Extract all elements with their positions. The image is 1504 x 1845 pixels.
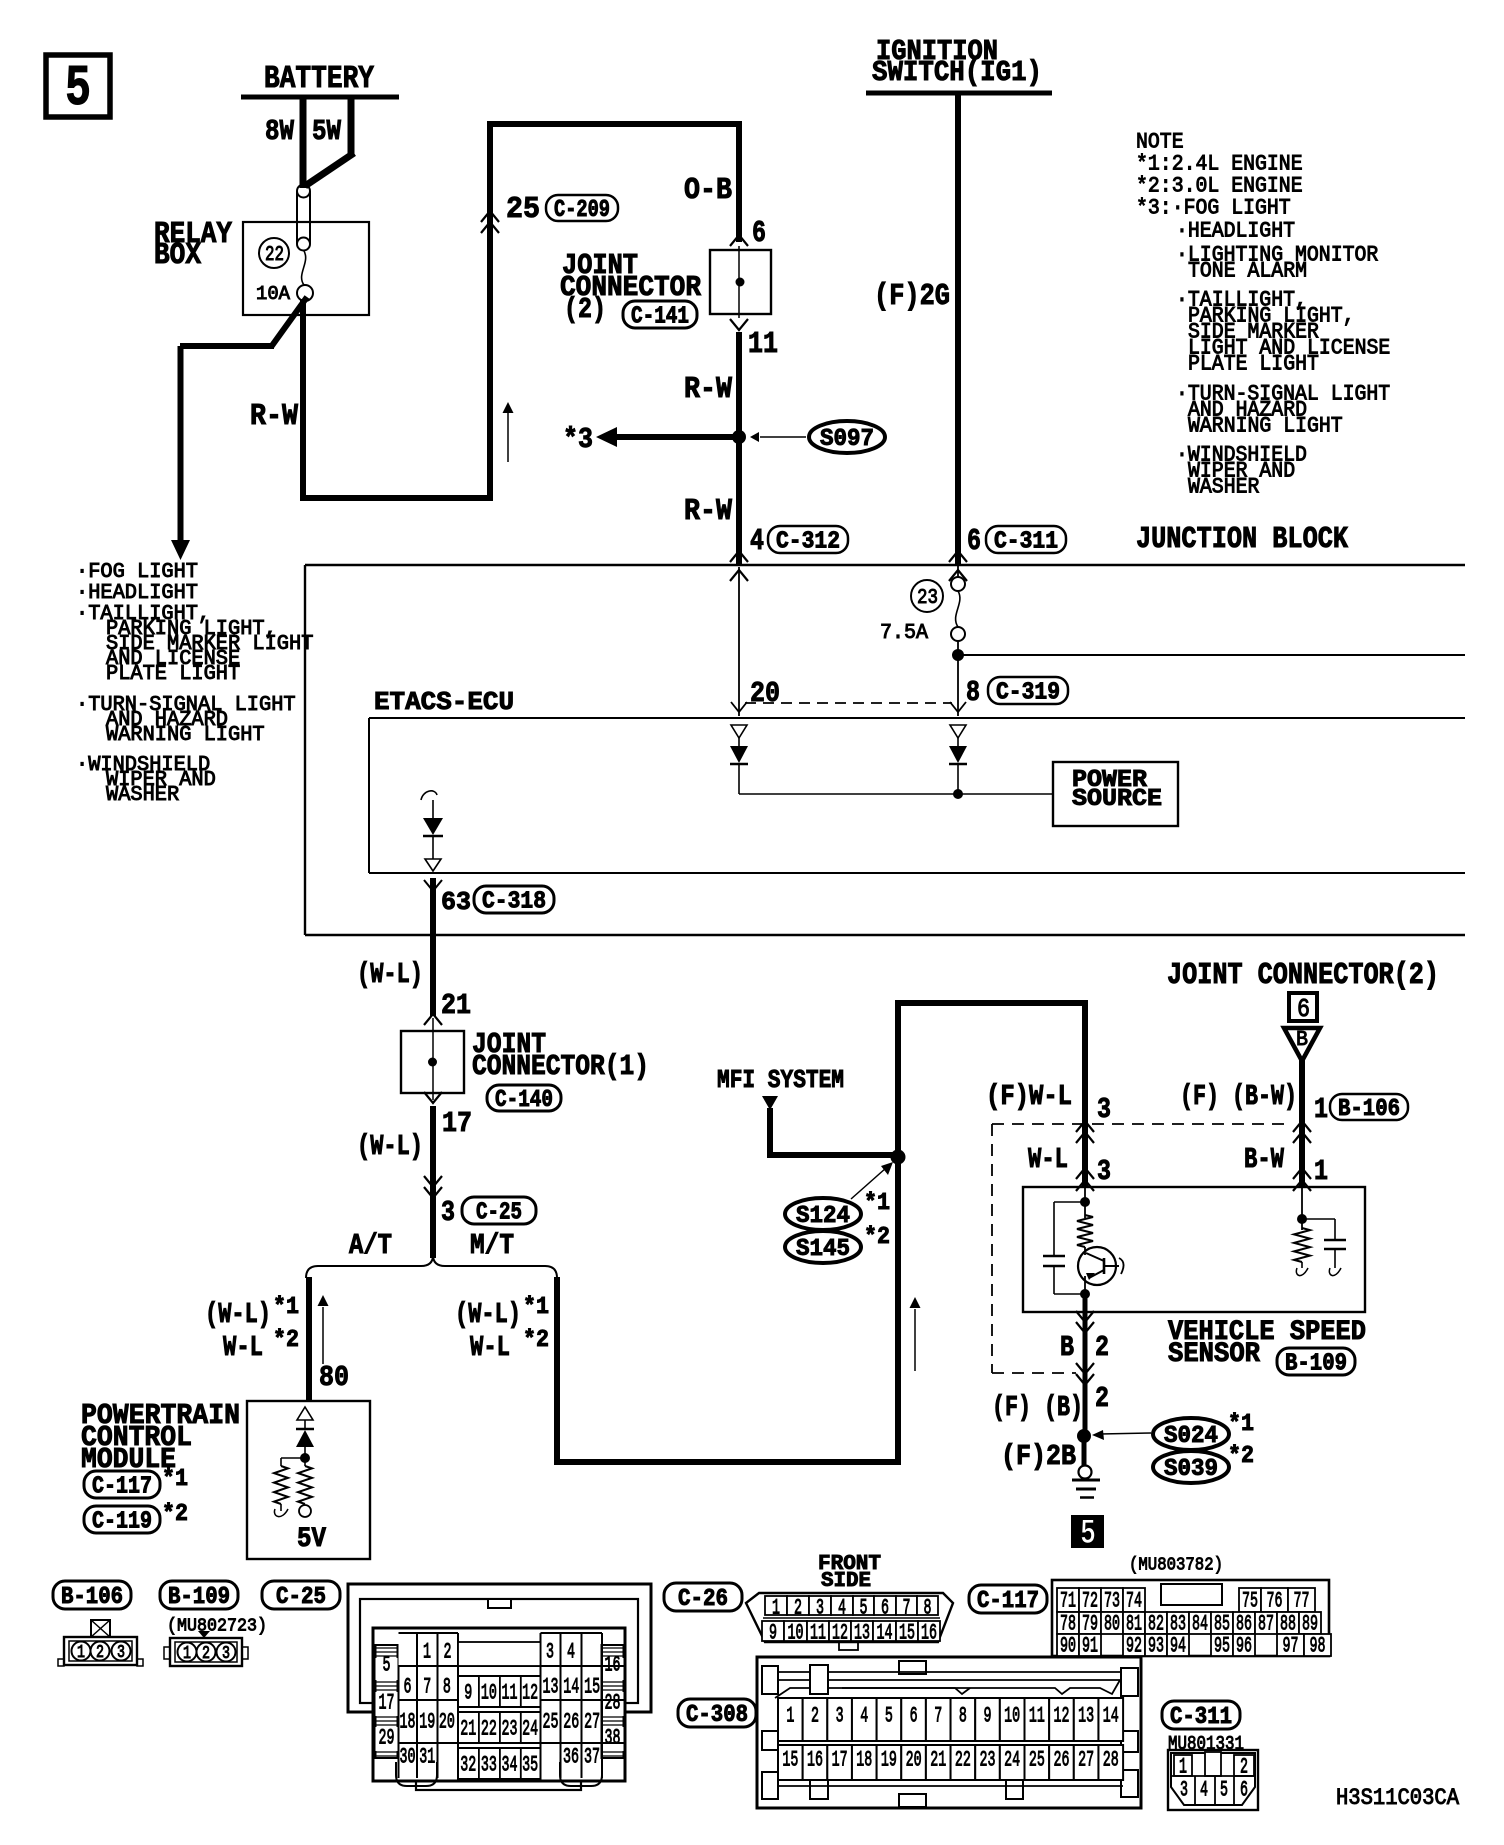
- svg-text:21: 21: [441, 989, 471, 1022]
- svg-text:(MU803782): (MU803782): [1129, 1554, 1223, 1576]
- connector C-308 drawing: [757, 1657, 1141, 1808]
- svg-text:JOINT CONNECTOR(2): JOINT CONNECTOR(2): [1167, 959, 1439, 993]
- svg-text:1: 1: [1314, 1155, 1328, 1188]
- svg-text:5: 5: [65, 57, 91, 122]
- svg-text:75: 75: [1242, 1589, 1258, 1614]
- PCM input circuit: [274, 1407, 327, 1555]
- svg-text:(W-L): (W-L): [357, 1130, 423, 1163]
- page tab 5: [46, 55, 110, 122]
- svg-text:16: 16: [807, 1748, 823, 1773]
- svg-text:JUNCTION BLOCK: JUNCTION BLOCK: [1136, 523, 1349, 557]
- svg-text:9: 9: [464, 1681, 472, 1706]
- svg-text:SOURCE: SOURCE: [1072, 786, 1162, 813]
- svg-text:5V: 5V: [297, 1524, 327, 1555]
- svg-text:94: 94: [1170, 1634, 1186, 1659]
- svg-text:*1: *1: [523, 1294, 549, 1321]
- svg-text:C-318: C-318: [482, 889, 546, 916]
- svg-text:*1: *1: [273, 1294, 299, 1321]
- svg-text:15: 15: [899, 1621, 915, 1646]
- svg-text:*2: *2: [864, 1224, 890, 1251]
- svg-text:5W: 5W: [312, 115, 342, 148]
- pin 80: [319, 1361, 349, 1394]
- wire B pin2: [992, 1294, 1109, 1440]
- wire R-W down from fuse: [250, 299, 303, 498]
- svg-text:20: 20: [750, 677, 780, 710]
- connector C-26 drawing: [746, 1593, 953, 1650]
- svg-text:*2: *2: [162, 1501, 188, 1528]
- svg-text:25: 25: [543, 1710, 559, 1735]
- svg-text:8: 8: [443, 1675, 451, 1700]
- svg-text:(F) (B-W): (F) (B-W): [1180, 1080, 1297, 1113]
- front side label: [818, 1552, 881, 1593]
- svg-text:1: 1: [772, 1596, 780, 1621]
- svg-text:C-308: C-308: [686, 1702, 748, 1729]
- branch *3 arrow: [563, 423, 739, 456]
- svg-text:C-25: C-25: [476, 1200, 522, 1227]
- svg-text:M/T: M/T: [470, 1229, 514, 1262]
- svg-text:22: 22: [265, 243, 284, 267]
- svg-text:8: 8: [966, 676, 980, 709]
- svg-text:19: 19: [881, 1748, 897, 1773]
- svg-text:C-311: C-311: [994, 529, 1058, 556]
- svg-text:(W-L): (W-L): [357, 958, 423, 991]
- svg-text:*1: *1: [162, 1466, 188, 1493]
- svg-text:5: 5: [885, 1704, 893, 1729]
- svg-text:7: 7: [903, 1596, 911, 1621]
- connector label B-109: [160, 1581, 238, 1611]
- svg-text:SENSOR: SENSOR: [1168, 1339, 1261, 1370]
- label B-W 1: [1244, 1143, 1328, 1191]
- svg-text:2: 2: [202, 1644, 210, 1664]
- svg-text:C-25: C-25: [276, 1584, 326, 1611]
- svg-text:84: 84: [1192, 1612, 1208, 1637]
- svg-text:5: 5: [860, 1596, 868, 1621]
- svg-text:7.5A: 7.5A: [880, 621, 928, 645]
- svg-text:9: 9: [769, 1621, 777, 1646]
- svg-text:C-319: C-319: [996, 680, 1060, 707]
- svg-text:11: 11: [1029, 1704, 1045, 1729]
- connector C-311 drawing: [1168, 1750, 1258, 1810]
- svg-text:3: 3: [1097, 1155, 1111, 1188]
- svg-text:28: 28: [1103, 1748, 1119, 1773]
- wire (F)2G: [874, 95, 958, 565]
- svg-text:11: 11: [810, 1621, 826, 1646]
- svg-text:8: 8: [924, 1596, 932, 1621]
- connector label C-308: [678, 1699, 756, 1729]
- svg-text:12: 12: [1053, 1704, 1069, 1729]
- pin 20 entry: [731, 567, 780, 716]
- svg-text:17: 17: [832, 1748, 848, 1773]
- fuse 23 7.5A: [880, 565, 965, 645]
- triangle B connector: [1284, 1028, 1320, 1061]
- svg-text:8: 8: [959, 1704, 967, 1729]
- svg-text:2: 2: [794, 1596, 802, 1621]
- svg-text:3: 3: [836, 1704, 844, 1729]
- svg-text:(F) (B): (F) (B): [992, 1391, 1083, 1424]
- svg-text:25: 25: [1029, 1748, 1045, 1773]
- joint connector (1) C-140: [401, 1014, 649, 1114]
- svg-text:B-W: B-W: [1244, 1143, 1285, 1176]
- svg-text:90: 90: [1060, 1634, 1076, 1659]
- svg-text:96: 96: [1236, 1634, 1252, 1659]
- svg-text:11: 11: [502, 1681, 518, 1706]
- svg-text:3: 3: [222, 1644, 230, 1664]
- svg-text:36: 36: [563, 1745, 579, 1770]
- wire to lights (left arrow): [171, 297, 307, 560]
- splice S124 *1: [785, 1190, 890, 1230]
- svg-text:*1: *1: [864, 1190, 890, 1217]
- wire M/T run: [554, 1000, 1088, 1465]
- connector C-25 drawing: [348, 1584, 651, 1790]
- svg-text:3: 3: [546, 1640, 554, 1665]
- wire to power source: [739, 789, 1053, 799]
- svg-text:BOX: BOX: [154, 239, 202, 273]
- svg-text:(W-L): (W-L): [205, 1298, 271, 1331]
- svg-text:20: 20: [906, 1748, 922, 1773]
- svg-text:MFI SYSTEM: MFI SYSTEM: [717, 1066, 844, 1095]
- svg-text:B-109: B-109: [1285, 1351, 1347, 1378]
- pin 3 connector C-25: [441, 1196, 536, 1229]
- wire riser x490: [487, 121, 493, 501]
- svg-text:9: 9: [984, 1704, 992, 1729]
- note block: [1136, 130, 1390, 500]
- pin 6 of C-141: [730, 217, 766, 251]
- node fuse23 out: [952, 641, 964, 716]
- svg-text:S024: S024: [1164, 1423, 1218, 1450]
- connector C-117 *1: [84, 1466, 188, 1501]
- connector label C-25: [262, 1581, 340, 1611]
- svg-text:*3:·FOG LIGHT: *3:·FOG LIGHT: [1136, 196, 1291, 221]
- harness dashes: [992, 1124, 1290, 1373]
- svg-text:23: 23: [917, 586, 938, 610]
- connector B-106 pin1: [1293, 1094, 1408, 1143]
- svg-text:S097: S097: [820, 426, 874, 453]
- svg-text:B-106: B-106: [1338, 1096, 1400, 1123]
- svg-text:C-311: C-311: [1170, 1704, 1232, 1731]
- svg-text:*3: *3: [563, 423, 593, 456]
- svg-text:5: 5: [1220, 1778, 1228, 1803]
- svg-text:29: 29: [379, 1726, 395, 1751]
- svg-text:74: 74: [1126, 1589, 1142, 1614]
- svg-text:6: 6: [404, 1675, 412, 1700]
- svg-text:3: 3: [441, 1196, 455, 1229]
- svg-text:(F)W-L: (F)W-L: [986, 1080, 1072, 1113]
- battery: [241, 61, 399, 97]
- wire (W-L) pin17 to C-25: [357, 1106, 472, 1258]
- connector pass C-209: [481, 193, 618, 233]
- svg-text:2: 2: [96, 1643, 104, 1663]
- svg-text:(F)2B: (F)2B: [1001, 1440, 1076, 1473]
- connector C-117 drawing: [1052, 1580, 1331, 1659]
- label W-L*2 A/T: [223, 1327, 299, 1364]
- svg-text:1: 1: [423, 1640, 431, 1665]
- svg-text:13: 13: [1078, 1704, 1094, 1729]
- svg-text:*2: *2: [523, 1327, 549, 1354]
- svg-text:10: 10: [788, 1621, 804, 1646]
- wire (F)(B-W): [1180, 1060, 1328, 1187]
- svg-text:23: 23: [980, 1748, 996, 1773]
- svg-text:10A: 10A: [256, 283, 290, 305]
- svg-text:C-26: C-26: [678, 1586, 728, 1613]
- connector B-109 drawing: [164, 1631, 248, 1666]
- svg-text:33: 33: [481, 1753, 497, 1778]
- svg-text:W-L: W-L: [223, 1331, 263, 1364]
- svg-text:·HEADLIGHT: ·HEADLIGHT: [1176, 219, 1295, 244]
- svg-text:3: 3: [816, 1596, 824, 1621]
- relay box: [154, 218, 369, 315]
- svg-text:32: 32: [460, 1753, 476, 1778]
- svg-text:15: 15: [782, 1748, 798, 1773]
- connector label C-117: [969, 1585, 1047, 1615]
- svg-text:W-L: W-L: [1028, 1143, 1068, 1176]
- svg-text:21: 21: [460, 1717, 476, 1742]
- svg-text:27: 27: [1078, 1748, 1094, 1773]
- bus line from fuse 23: [958, 654, 1465, 656]
- svg-text:5: 5: [1080, 1515, 1096, 1554]
- svg-text:WASHER: WASHER: [1188, 475, 1259, 500]
- powertrain control module: [81, 1399, 370, 1559]
- flow arrow near vss: [910, 1297, 921, 1371]
- svg-text:1: 1: [786, 1704, 794, 1729]
- label (W-L)*1 A/T: [205, 1294, 299, 1331]
- node S124/S145 junction: [891, 1150, 906, 1165]
- svg-text:2: 2: [1095, 1382, 1109, 1415]
- diode to pin 63: [421, 791, 443, 871]
- svg-text:26: 26: [1053, 1748, 1069, 1773]
- splice S145 *2: [785, 1224, 890, 1263]
- svg-text:*2: *2: [1228, 1443, 1254, 1470]
- svg-text:3: 3: [1097, 1093, 1111, 1126]
- svg-text:R-W: R-W: [684, 373, 733, 407]
- svg-text:C-312: C-312: [776, 529, 840, 556]
- diode pin20: [730, 725, 748, 794]
- svg-text:TONE ALARM: TONE ALARM: [1188, 259, 1307, 284]
- svg-text:24: 24: [522, 1717, 538, 1742]
- svg-text:25: 25: [506, 193, 540, 227]
- svg-text:(2): (2): [564, 293, 606, 326]
- svg-text:*1: *1: [1228, 1411, 1254, 1438]
- svg-text:6: 6: [910, 1704, 918, 1729]
- ETACS-ECU box: [369, 688, 1465, 873]
- connector B-106 drawing: [58, 1620, 143, 1666]
- diode pin8: [949, 725, 967, 794]
- joint connector (2) C-141: [560, 246, 771, 331]
- svg-text:17: 17: [442, 1107, 472, 1140]
- ground: [1072, 1436, 1100, 1498]
- pin 4 connector C-312: [730, 525, 848, 581]
- label W-L*2 M/T: [470, 1327, 549, 1364]
- svg-text:18: 18: [400, 1710, 416, 1735]
- svg-text:87: 87: [1258, 1612, 1274, 1637]
- svg-text:BATTERY: BATTERY: [264, 61, 375, 97]
- A/T M/T branch brace: [306, 1229, 557, 1278]
- svg-text:B: B: [1060, 1331, 1074, 1364]
- svg-text:4: 4: [860, 1704, 868, 1729]
- svg-text:4: 4: [750, 525, 764, 559]
- svg-text:B: B: [1296, 1028, 1308, 1052]
- dashed link pins 20-8: [745, 702, 952, 704]
- svg-text:(W-L): (W-L): [455, 1298, 521, 1331]
- wire 5W from battery: [305, 97, 354, 186]
- svg-text:77: 77: [1294, 1589, 1310, 1614]
- svg-text:R-W: R-W: [250, 400, 299, 434]
- svg-text:28: 28: [605, 1691, 621, 1716]
- svg-text:SWITCH(IG1): SWITCH(IG1): [872, 56, 1042, 89]
- svg-text:6: 6: [1297, 995, 1310, 1024]
- svg-text:3: 3: [117, 1643, 125, 1663]
- svg-text:S124: S124: [796, 1203, 850, 1230]
- svg-text:4: 4: [838, 1596, 846, 1621]
- svg-text:2: 2: [1095, 1331, 1109, 1364]
- svg-text:1: 1: [183, 1644, 191, 1664]
- MFI system feed: [717, 1066, 898, 1155]
- pin 6 connector C-311: [949, 525, 1066, 581]
- svg-text:*2: *2: [273, 1327, 299, 1354]
- vss pickup coil circuit: [1294, 1187, 1346, 1276]
- svg-text:6: 6: [967, 525, 981, 559]
- node S097 junction: [732, 430, 746, 444]
- vehicle speed sensor box: [1023, 1187, 1366, 1378]
- part number MU803782: [1129, 1554, 1223, 1576]
- svg-text:(MU802723): (MU802723): [167, 1615, 267, 1637]
- svg-text:C-209: C-209: [554, 197, 610, 224]
- page tag 5 black: [1071, 1515, 1104, 1554]
- svg-text:76: 76: [1267, 1589, 1283, 1614]
- svg-text:2: 2: [811, 1704, 819, 1729]
- svg-text:C-117: C-117: [92, 1474, 152, 1501]
- svg-text:C-117: C-117: [977, 1588, 1039, 1615]
- joint connector (2) label: [1167, 959, 1439, 993]
- svg-text:10: 10: [1004, 1704, 1020, 1729]
- svg-text:7: 7: [423, 1675, 431, 1700]
- svg-text:80: 80: [319, 1361, 349, 1394]
- wire A/T (W-L): [306, 1277, 312, 1401]
- svg-text:C-141: C-141: [631, 304, 689, 331]
- svg-text:22: 22: [955, 1748, 971, 1773]
- svg-text:18: 18: [856, 1748, 872, 1773]
- svg-text:B-109: B-109: [168, 1584, 230, 1611]
- wire (W-L) 63 to joint connector 1: [357, 878, 471, 1022]
- svg-text:1: 1: [1314, 1093, 1328, 1126]
- svg-text:WARNING LIGHT: WARNING LIGHT: [1188, 414, 1343, 439]
- fog light list: [76, 560, 313, 807]
- svg-text:4: 4: [1200, 1778, 1208, 1803]
- svg-text:6: 6: [881, 1596, 889, 1621]
- svg-text:63: 63: [441, 888, 471, 917]
- vss transistor circuit: [1043, 1187, 1124, 1299]
- pin 8 connector C-319: [950, 676, 1068, 712]
- ignition switch (IG1): [866, 35, 1052, 93]
- svg-text:R-W: R-W: [684, 495, 733, 529]
- svg-text:W-L: W-L: [470, 1331, 510, 1364]
- part number MU801331: [1168, 1733, 1244, 1755]
- fuse 22 (fusible link): [256, 185, 313, 306]
- svg-text:15: 15: [584, 1675, 600, 1700]
- svg-text:H3S11C03CA: H3S11C03CA: [1336, 1785, 1459, 1811]
- wire R-W below C-141: [684, 332, 739, 565]
- svg-text:23: 23: [502, 1717, 518, 1742]
- wire 8W from battery: [265, 97, 303, 188]
- power source box: [1053, 762, 1178, 826]
- svg-text:34: 34: [502, 1753, 518, 1778]
- svg-text:1: 1: [77, 1643, 85, 1663]
- svg-text:11: 11: [748, 328, 778, 362]
- svg-text:3: 3: [1180, 1778, 1188, 1803]
- label (W-L)*1 M/T: [455, 1294, 549, 1331]
- svg-text:91: 91: [1082, 1634, 1098, 1659]
- svg-text:SIDE: SIDE: [821, 1569, 871, 1593]
- connector label C-311: [1162, 1701, 1240, 1731]
- svg-text:26: 26: [563, 1710, 579, 1735]
- svg-text:24: 24: [1004, 1748, 1020, 1773]
- splice S024 *1: [1153, 1411, 1254, 1450]
- svg-text:21: 21: [930, 1748, 946, 1773]
- svg-text:10: 10: [481, 1681, 497, 1706]
- connector C-119 *2: [84, 1501, 188, 1536]
- arrow from splice to node: [851, 1162, 893, 1199]
- splice S097: [750, 421, 885, 453]
- wire O-B: [684, 121, 739, 242]
- svg-text:80: 80: [1104, 1612, 1120, 1637]
- svg-text:13: 13: [543, 1675, 559, 1700]
- svg-text:PLATE LIGHT: PLATE LIGHT: [1188, 352, 1319, 377]
- svg-text:ETACS-ECU: ETACS-ECU: [374, 688, 514, 717]
- svg-text:37: 37: [584, 1745, 600, 1770]
- svg-text:C-140: C-140: [495, 1087, 553, 1114]
- svg-text:C-119: C-119: [92, 1509, 152, 1536]
- svg-text:72: 72: [1082, 1589, 1098, 1614]
- svg-text:6: 6: [752, 217, 766, 251]
- svg-text:35: 35: [522, 1753, 538, 1778]
- svg-text:2: 2: [444, 1640, 452, 1665]
- svg-text:S039: S039: [1164, 1456, 1218, 1483]
- svg-text:98: 98: [1310, 1634, 1326, 1659]
- svg-text:O-B: O-B: [684, 174, 732, 208]
- svg-text:38: 38: [605, 1726, 621, 1751]
- svg-text:(F)2G: (F)2G: [874, 280, 950, 314]
- svg-text:S145: S145: [796, 1236, 850, 1263]
- drawing number: [1336, 1785, 1459, 1811]
- arrow from S024 to node: [1092, 1430, 1151, 1440]
- svg-text:6: 6: [1240, 1778, 1248, 1803]
- svg-text:5: 5: [383, 1653, 391, 1678]
- svg-text:17: 17: [379, 1691, 395, 1716]
- svg-text:14: 14: [563, 1675, 579, 1700]
- svg-text:95: 95: [1214, 1634, 1230, 1659]
- svg-text:14: 14: [877, 1621, 893, 1646]
- part number MU802723: [167, 1615, 267, 1637]
- splice S039 *2: [1153, 1443, 1254, 1483]
- svg-text:30: 30: [400, 1745, 416, 1770]
- wire top run to O-B: [487, 121, 742, 127]
- node S024 junction: [1001, 1429, 1091, 1473]
- svg-text:WARNING LIGHT: WARNING LIGHT: [106, 723, 265, 747]
- svg-text:4: 4: [567, 1640, 575, 1665]
- svg-text:22: 22: [481, 1717, 497, 1742]
- svg-text:8W: 8W: [265, 115, 295, 148]
- wire R-W to C-312: [684, 495, 733, 529]
- svg-text:19: 19: [419, 1710, 435, 1735]
- svg-text:92: 92: [1126, 1634, 1142, 1659]
- wire bottom run to riser: [300, 495, 490, 501]
- pin 63 connector C-318: [424, 880, 554, 917]
- svg-text:14: 14: [1103, 1704, 1119, 1729]
- wire (F)W-L: [986, 1000, 1111, 1187]
- svg-text:16: 16: [921, 1621, 937, 1646]
- svg-text:12: 12: [522, 1681, 538, 1706]
- connector label B-106: [53, 1581, 131, 1611]
- pin 11 of C-141: [730, 319, 778, 362]
